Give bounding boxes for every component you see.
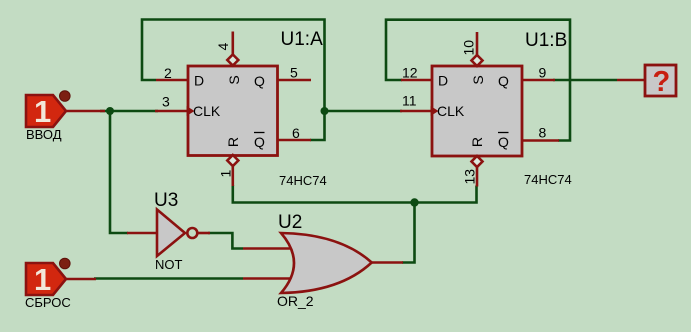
U1:A pin 2 (D) — [156, 65, 188, 81]
wire: Q(9) to output terminal — [553, 79, 617, 82]
input terminal ВВОД — [26, 91, 105, 142]
svg-text:74HC74: 74HC74 — [279, 173, 327, 188]
svg-text:6: 6 — [292, 125, 300, 141]
input terminal СБРОС — [25, 258, 96, 310]
svg-text:?: ? — [653, 66, 671, 98]
svg-text:2: 2 — [164, 65, 172, 81]
svg-text:11: 11 — [402, 93, 417, 109]
D flip-flop U1:A — [187, 66, 278, 156]
svg-text:4: 4 — [215, 43, 231, 51]
svg-text:Q: Q — [498, 134, 509, 150]
svg-text:OR_2: OR_2 — [277, 293, 314, 309]
svg-text:ВВОД: ВВОД — [26, 127, 62, 142]
svg-text:СБРОС: СБРОС — [25, 295, 71, 310]
svg-text:13: 13 — [462, 169, 478, 185]
D flip-flop U1:B — [431, 66, 523, 156]
U1:B pin 10 (S) — [461, 32, 483, 66]
wire: СБРОС to OR input — [94, 277, 243, 280]
U1:B pin 13 (R) — [462, 156, 483, 187]
svg-text:R: R — [225, 137, 241, 147]
wire: ВВОД to CLK U1:A — [100, 110, 158, 113]
svg-text:3: 3 — [162, 94, 170, 110]
label U1:B — [525, 30, 567, 51]
inverter U3 — [127, 210, 210, 257]
svg-text:U1:B: U1:B — [525, 30, 567, 51]
U1:B pin 9 (Q) — [522, 65, 555, 81]
svg-text:U2: U2 — [278, 212, 302, 233]
wire: junction to CLK U1:B — [325, 110, 403, 113]
U1:B pin 12 (D) — [401, 65, 432, 81]
U1:A pin 6 (Q̄) — [278, 125, 312, 141]
svg-text:Q: Q — [254, 134, 265, 150]
value OR_2 — [277, 293, 314, 309]
svg-text:74HC74: 74HC74 — [524, 172, 572, 187]
svg-text:10: 10 — [461, 40, 477, 56]
svg-text:9: 9 — [539, 65, 547, 81]
svg-text:U1:A: U1:A — [281, 29, 324, 50]
wire: U1:A feedback Q̄(6) to D(2) top loop — [142, 20, 325, 141]
svg-text:12: 12 — [402, 65, 418, 81]
value NOT — [155, 257, 183, 272]
U1:A pin 3 (CLK) — [155, 94, 188, 112]
svg-text:1: 1 — [34, 262, 51, 297]
output terminal ? — [617, 65, 676, 98]
svg-text:1: 1 — [34, 94, 51, 129]
U1:A pin 4 (S) — [215, 32, 238, 66]
wire: R(1) to R(13) bottom bus — [233, 185, 477, 203]
wire: NOT output to OR input A — [208, 233, 243, 249]
OR gate U2 — [243, 233, 403, 293]
label U1:A — [281, 29, 324, 50]
U1:B pin 8 (Q̄) — [522, 125, 559, 141]
svg-text:5: 5 — [290, 65, 298, 81]
svg-text:U3: U3 — [154, 190, 178, 211]
svg-text:CLK: CLK — [437, 103, 465, 119]
svg-text:NOT: NOT — [155, 257, 183, 272]
svg-text:S: S — [470, 75, 486, 84]
value 74HC74 (U1:A) — [279, 173, 327, 188]
value 74HC74 (U1:B) — [524, 172, 572, 187]
wire: U1:B feedback Q̄(8) to D(12) top loop — [386, 20, 570, 141]
svg-text:Q: Q — [254, 73, 265, 89]
label U3 — [154, 190, 178, 211]
U1:A pin 5 (Q) — [278, 65, 312, 81]
node: junction R bus / OR output — [410, 198, 418, 206]
svg-text:D: D — [438, 73, 448, 89]
node: junction ВВОД net — [106, 107, 114, 115]
U1:B pin 11 (CLK) — [400, 93, 432, 112]
svg-text:R: R — [469, 137, 485, 147]
node: junction Q̄6 / CLK11 — [321, 107, 329, 115]
svg-text:Q: Q — [498, 73, 509, 89]
wire: junction down to NOT input — [110, 111, 128, 233]
label U2 — [278, 212, 302, 233]
svg-text:1: 1 — [218, 170, 234, 178]
svg-text:D: D — [194, 73, 204, 89]
wire: OR output up to R bus — [402, 203, 415, 263]
U1:A pin 1 (R) — [218, 155, 239, 186]
svg-text:S: S — [226, 75, 242, 84]
svg-text:CLK: CLK — [193, 103, 221, 119]
svg-text:8: 8 — [539, 125, 547, 141]
